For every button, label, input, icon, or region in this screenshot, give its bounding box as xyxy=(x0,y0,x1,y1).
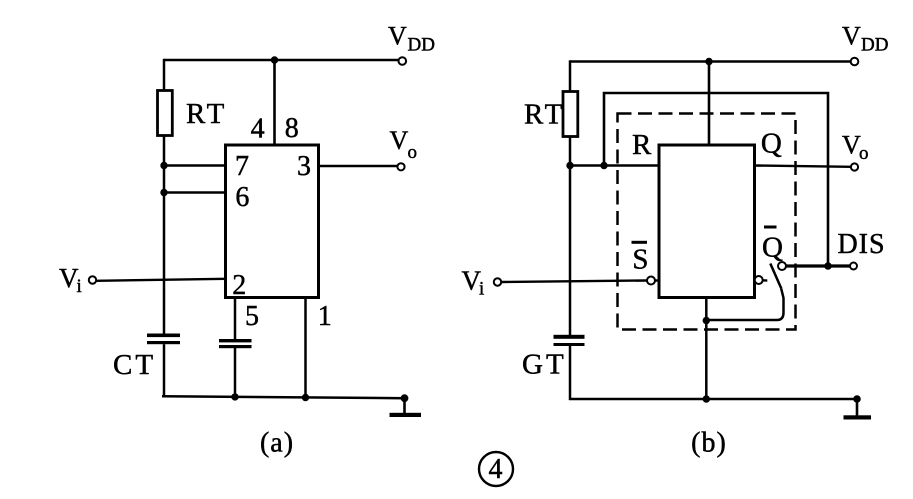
svg-text:2: 2 xyxy=(232,270,246,301)
svg-text:1: 1 xyxy=(318,301,332,332)
terminal VDD (b) xyxy=(851,58,859,66)
node junction top rail / pin 8 (a) xyxy=(271,56,278,63)
switch pivot wire to ground node xyxy=(706,289,783,320)
svg-text:o: o xyxy=(859,143,869,164)
node junction R wire (b) xyxy=(600,162,607,169)
wire GT bottom (b) xyxy=(569,346,572,400)
wire pin5 capacitor to ground rail xyxy=(234,348,237,397)
resistor RT (b) xyxy=(563,92,578,137)
figure number 4 circled xyxy=(479,452,513,486)
wire CT bottom (a) xyxy=(163,344,166,397)
svg-text:V: V xyxy=(388,22,407,51)
wire pin 1 (a) xyxy=(304,298,307,398)
node junction bottom rail (b) xyxy=(703,395,710,402)
switch contact xyxy=(778,262,786,270)
node junction pin6 (a) xyxy=(160,189,167,196)
svg-text:DD: DD xyxy=(861,35,888,56)
node junction pin7 (a) xyxy=(160,162,167,169)
wire left vertical top (b) xyxy=(569,60,572,92)
wire resistor bottom to CT top plate (a) xyxy=(163,136,166,335)
wire pin 5 to capacitor xyxy=(234,298,237,340)
node junction top rail (b) xyxy=(705,58,712,65)
svg-text:o: o xyxy=(408,142,418,163)
capacitor GT plate bottom xyxy=(554,343,585,346)
wire R input (b) xyxy=(570,164,659,167)
node junction DIS xyxy=(824,262,832,270)
terminal Vi (b) xyxy=(494,278,501,285)
svg-text:4: 4 xyxy=(489,454,503,485)
wire resistor bottom to GT (b) xyxy=(569,137,572,336)
capacitor pin5 plate top xyxy=(219,339,252,342)
svg-text:S: S xyxy=(632,244,648,276)
svg-text:(a): (a) xyxy=(260,428,294,459)
wire R node riser / DIS link xyxy=(604,93,828,266)
wire pin 3 output (a) xyxy=(319,165,398,167)
node junction RT bottom (b) xyxy=(566,162,573,169)
capacitor GT plate top xyxy=(554,335,585,339)
IC box 555 (a) xyxy=(226,145,319,298)
terminal Vo (a) xyxy=(397,163,404,170)
svg-text:6: 6 xyxy=(235,182,249,213)
switch lever (discharge) xyxy=(770,264,781,289)
terminal VDD (a) xyxy=(399,57,407,65)
terminal Vo (b) xyxy=(851,163,858,170)
svg-text:Q: Q xyxy=(761,128,782,160)
wire Q output to Vo (b) xyxy=(755,166,852,167)
svg-text:GT: GT xyxy=(522,349,567,381)
wire top rail (b) VDD xyxy=(570,60,850,63)
svg-text:5: 5 xyxy=(245,301,259,332)
svg-text:R: R xyxy=(632,129,652,161)
wire DIS heavy xyxy=(787,264,851,267)
wire pin 7 (a) xyxy=(164,164,227,167)
ground (a) xyxy=(401,394,409,402)
bubble S input xyxy=(647,277,655,285)
node junction pin5 ground xyxy=(231,393,238,400)
wire top rail (a) VDD xyxy=(164,59,398,62)
wire bottom ground rail (a) xyxy=(162,396,405,398)
capacitor CT plate bottom xyxy=(147,341,180,344)
capacitor CT plate top xyxy=(147,334,180,338)
svg-text:Q: Q xyxy=(762,232,783,264)
wire Vi to pin 2 (a) xyxy=(96,279,226,281)
svg-text:V: V xyxy=(842,22,861,51)
flip-flop box (b) xyxy=(659,145,755,298)
svg-text:RT: RT xyxy=(524,99,565,131)
resistor RT (a) xyxy=(158,91,173,136)
dashed box 555 internal (b) xyxy=(618,114,796,330)
svg-text:RT: RT xyxy=(186,98,227,130)
svg-text:3: 3 xyxy=(297,151,311,182)
wire bottom ground rail (b) xyxy=(569,398,857,401)
terminal Vi (a) xyxy=(89,276,96,283)
svg-text:DIS: DIS xyxy=(837,229,885,260)
capacitor pin5 plate bottom xyxy=(219,345,252,348)
wire flip-flop bottom to ground rail xyxy=(705,298,708,400)
terminal DIS xyxy=(850,263,857,270)
wire VDD to flip-flop top (b) xyxy=(708,62,711,146)
ground (b) xyxy=(853,395,861,403)
wire left vertical top (a) xyxy=(163,59,166,91)
node junction switch return xyxy=(703,317,710,324)
svg-text:(b): (b) xyxy=(691,428,727,459)
svg-text:CT: CT xyxy=(113,349,156,381)
wire pin 8 vertical (a) xyxy=(273,60,276,145)
svg-text:8: 8 xyxy=(285,113,299,144)
wire Vi to S input (b) xyxy=(502,281,647,283)
node junction pin1 ground xyxy=(302,394,309,401)
wire pin 6 (a) xyxy=(164,191,227,194)
svg-text:DD: DD xyxy=(408,35,435,56)
bubble Qbar output xyxy=(755,276,763,284)
svg-text:4: 4 xyxy=(251,114,265,145)
svg-text:i: i xyxy=(77,276,82,297)
svg-text:7: 7 xyxy=(235,151,249,182)
svg-text:i: i xyxy=(479,279,484,300)
svg-text:V: V xyxy=(390,126,409,155)
